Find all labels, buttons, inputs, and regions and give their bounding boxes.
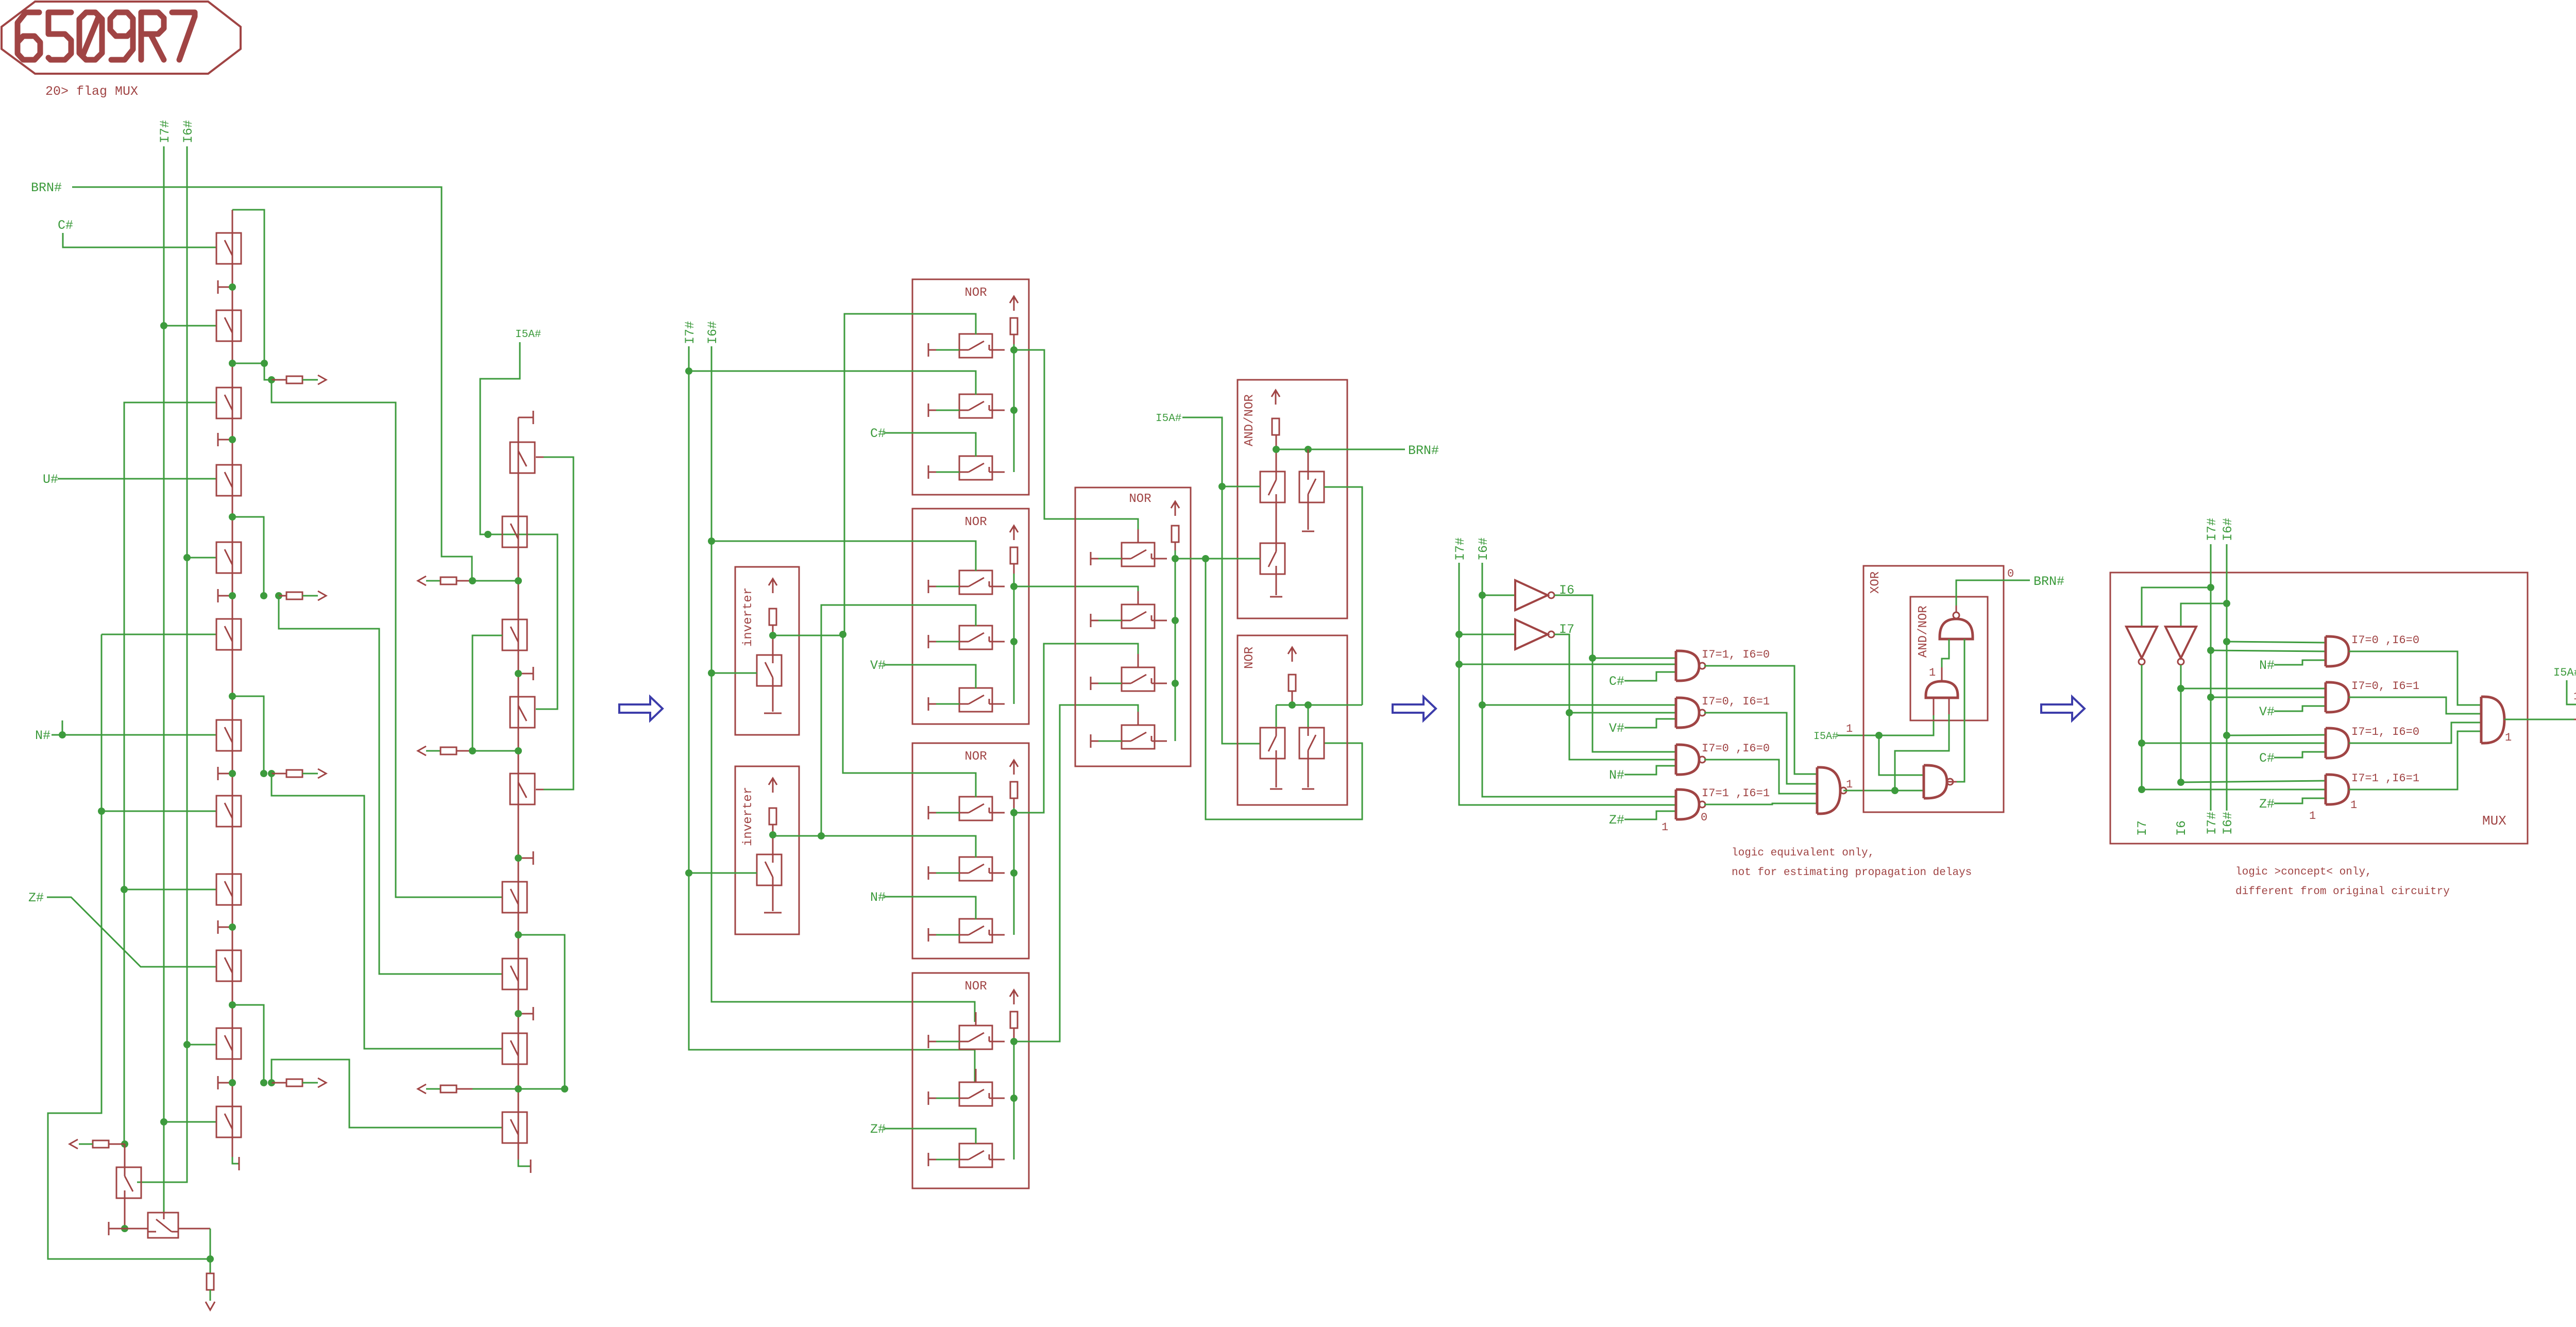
svg-text:NOR: NOR xyxy=(964,286,987,300)
transistor NOR5.Q1 xyxy=(1122,529,1167,566)
svg-text:C#: C# xyxy=(870,426,886,441)
arrow output y=1127 xyxy=(418,576,426,585)
block inverter2 outline xyxy=(735,766,799,934)
svg-text:I6: I6 xyxy=(2174,820,2189,836)
svg-text:N#: N# xyxy=(35,728,50,743)
wire resistor stub NOR1 xyxy=(1013,334,1015,344)
svg-text:1: 1 xyxy=(2309,810,2316,822)
wire out y=1457 xyxy=(426,750,440,752)
wire B1 drain xyxy=(124,1144,126,1167)
junction rail NOR1.Q1 xyxy=(1010,346,1018,354)
wire Q9 gate row xyxy=(124,889,217,891)
transistor QA3 xyxy=(216,388,241,418)
wire I7# to Q12 gate xyxy=(164,1121,216,1123)
wire I7# to A1 xyxy=(2211,650,2326,651)
transistor NOR2.Q3 xyxy=(959,675,1005,712)
substrate tap T (col A, y=557) xyxy=(218,280,232,294)
block NOR6 outline xyxy=(1238,635,1347,805)
junction tap y=1501 xyxy=(268,770,275,777)
wire xyxy=(1843,790,1924,792)
junction pair2 xyxy=(229,513,236,520)
resistor node-B1 xyxy=(93,1140,109,1148)
wire tap out y=737 xyxy=(302,379,318,381)
wire NOR6 rail xyxy=(1292,691,1293,705)
wire G5 out to G7 xyxy=(1895,714,1949,791)
svg-text:NOR: NOR xyxy=(1243,647,1257,669)
junction bypass colB xyxy=(515,931,522,938)
AND gate G4 xyxy=(1676,790,1705,819)
junction I7 to A3 xyxy=(2138,740,2145,747)
pull-up arrow inverter1 xyxy=(769,579,777,593)
wire out y=2113 xyxy=(426,1088,440,1090)
wire I7 to A3 xyxy=(2142,743,2326,744)
arrow panel2 to panel3 xyxy=(1393,697,1436,720)
wire xyxy=(124,402,216,1144)
junction xyxy=(515,854,522,862)
wire I6# to A1 xyxy=(2227,642,2326,643)
svg-text:MUX: MUX xyxy=(2482,813,2506,829)
resistor tap y=1156 xyxy=(286,592,302,599)
wire xyxy=(472,635,502,751)
svg-text:1: 1 xyxy=(2505,731,2512,744)
junction rail NOR3.Q2 xyxy=(1010,869,1018,877)
transistor inverter2.Q xyxy=(757,854,782,885)
AND gate G7 (middle) xyxy=(1926,681,1958,698)
svg-text:I7=1 ,I6=1: I7=1 ,I6=1 xyxy=(1702,787,1770,800)
wire rail inverter2 xyxy=(772,825,774,854)
substrate tap T (col A, y=1156) xyxy=(218,589,232,602)
junction I5A# at QB4 gate xyxy=(484,531,492,538)
transistor QB3 xyxy=(510,442,535,473)
resistor tap y=1501 xyxy=(286,770,302,777)
junction rail NOR5.Q2 xyxy=(1172,617,1179,624)
wire tap2 to QB9 gate xyxy=(279,596,502,974)
junction inv2 out xyxy=(818,832,825,839)
AND gate A1 xyxy=(2326,636,2349,666)
transistor QA2 xyxy=(216,310,241,341)
wire C# to A3 xyxy=(2274,752,2326,758)
pull-up arrow NOR5 xyxy=(1171,501,1179,516)
junction I5A# to Q1 xyxy=(1218,483,1226,490)
svg-text:logic >concept< only,: logic >concept< only, xyxy=(2235,866,2372,878)
gate tap T NOR2.Q1 xyxy=(928,580,936,593)
svg-text:I7#: I7# xyxy=(683,321,698,344)
wire xyxy=(1941,667,1943,681)
wire Q2 source xyxy=(1308,759,1309,787)
transistor NOR1.Q3 xyxy=(959,443,1005,480)
wire xyxy=(1704,803,1817,804)
substrate tap T (col A, y=2101) xyxy=(218,1076,232,1089)
junction I7# to Q2 xyxy=(160,322,167,329)
junction rail NOR1.Q2 xyxy=(1010,407,1018,414)
junction xyxy=(229,283,236,291)
junction xyxy=(260,1079,267,1086)
wire A5 out stub xyxy=(2574,719,2576,720)
pull-up resistor inverter2 xyxy=(769,808,776,825)
wire I7 to G2 xyxy=(1569,712,1676,714)
wire U# to Q4 gate xyxy=(58,478,216,480)
gate tap T NOR3.Q1 xyxy=(928,806,936,819)
svg-text:I7=0, I6=1: I7=0, I6=1 xyxy=(2351,680,2419,693)
junction out inverter2 xyxy=(769,831,776,838)
wire V# to A2 xyxy=(2274,706,2326,711)
wire I7# rail xyxy=(163,146,165,1213)
wire QB3 stub xyxy=(536,457,544,458)
junction NOR5 out branch xyxy=(1202,555,1209,562)
NAND gate A5 (output) xyxy=(2481,697,2504,743)
wire xyxy=(2349,723,2481,743)
wire resistor stub NOR4 xyxy=(1013,1028,1015,1038)
wire B2 to pulldown xyxy=(210,1229,211,1259)
wire to resistor xyxy=(210,1259,211,1273)
transistor QB9 xyxy=(502,959,527,989)
pull-up arrow NOR4 xyxy=(1010,990,1018,1004)
inverter U3 (I7) xyxy=(2126,627,2157,665)
wire Q3 source xyxy=(1276,574,1277,595)
transistor NOR5.Q3 xyxy=(1122,654,1167,691)
transistor NOR5.Q4 xyxy=(1122,712,1167,749)
junction rail NOR5.Q3 xyxy=(1172,680,1179,687)
wire tap out y=1501 xyxy=(302,773,318,775)
wire source lead NOR4.Q1 xyxy=(936,1041,959,1043)
wire node-B2 rail to Q8 gate xyxy=(101,811,217,812)
resistor tap y=1457 xyxy=(440,747,456,754)
inverter U2 (I7) xyxy=(1515,619,1554,649)
NOR gate G8 (top) xyxy=(1940,612,1973,639)
wire xyxy=(2349,697,2481,714)
wire source lead NOR3.Q1 xyxy=(936,812,959,814)
wire xyxy=(843,634,976,797)
svg-text:I5A#: I5A# xyxy=(2553,666,2576,679)
arrow output y=2101 xyxy=(318,1078,326,1087)
wire xyxy=(1013,1038,1015,1160)
wire source lead NOR4.Q2 xyxy=(936,1098,959,1099)
wire xyxy=(1554,634,1676,760)
block XOR outline xyxy=(1863,566,2004,812)
junction pulldown xyxy=(207,1255,214,1263)
svg-text:Z#: Z# xyxy=(2259,797,2275,812)
AND gate A2 xyxy=(2326,682,2349,712)
gate tap T NOR5.Q4 xyxy=(1091,734,1098,748)
wire xyxy=(472,580,518,582)
wire V# to NOR2.Q3 gate xyxy=(884,665,976,688)
svg-text:I7=0 ,I6=0: I7=0 ,I6=0 xyxy=(1702,742,1770,755)
wire Z# to A4 xyxy=(2274,798,2326,803)
inverter U1 (I6) xyxy=(1515,580,1554,610)
junction pair1 bypass xyxy=(261,360,268,367)
transistor NOR1.Q2 xyxy=(959,381,1005,418)
block NOR3 outline xyxy=(912,743,1029,959)
junction pair1 xyxy=(229,360,236,367)
junction I7# to inv xyxy=(1455,631,1463,638)
wire tap1 to QB8 gate xyxy=(272,380,502,897)
ground inverter1 xyxy=(764,713,782,714)
wire to Q2 top xyxy=(1308,705,1309,728)
transistor NOR5.Q2 xyxy=(1122,591,1167,628)
transistor NOR6.Q2 xyxy=(1299,728,1324,759)
junction tap y=1127 xyxy=(469,577,476,584)
wire I7 to A4 xyxy=(2142,789,2326,791)
junction xyxy=(515,1010,522,1017)
junction I7# to A2 xyxy=(2207,694,2214,701)
pull-up resistor inverter1 xyxy=(769,609,776,625)
transistor QA8 xyxy=(216,796,241,827)
wire xyxy=(1837,714,1934,735)
svg-text:C#: C# xyxy=(2259,751,2275,766)
transistor QA1 xyxy=(216,233,241,264)
junction I6 to A2 xyxy=(2177,685,2184,692)
junction rail NOR4.Q2 xyxy=(1010,1095,1018,1102)
svg-text:AND/NOR: AND/NOR xyxy=(1243,394,1257,446)
svg-text:1: 1 xyxy=(2573,690,2576,703)
wire xyxy=(2180,665,2182,782)
wire xyxy=(2181,603,2227,627)
junction chain y=1127 xyxy=(515,577,522,584)
transistor NOR3.Q3 xyxy=(959,905,1005,943)
inverter U4 (I6) xyxy=(2165,627,2196,665)
transistor QA5 xyxy=(216,542,241,573)
svg-text:1: 1 xyxy=(1662,821,1668,834)
wire xyxy=(2141,665,2143,790)
junction I6# to NOR2.Q1 xyxy=(708,537,715,545)
wire source lead NOR1.Q2 xyxy=(936,410,959,411)
wire I7# rail (panel4) xyxy=(2210,544,2212,811)
transistor QB11 xyxy=(502,1112,527,1143)
svg-text:I7=1, I6=0: I7=1, I6=0 xyxy=(2351,726,2419,738)
wire source lead NOR1.Q1 xyxy=(936,349,959,351)
logo text 6509R7 xyxy=(18,12,40,60)
junction I6# to inv xyxy=(1479,592,1486,599)
arrow output y=1501 xyxy=(318,769,326,778)
block AND/NOR outline xyxy=(1238,380,1347,618)
pull-up arrow NOR6 xyxy=(1288,647,1296,662)
wire to inverter I6 xyxy=(1482,595,1515,596)
pull-up arrow inverter2 xyxy=(769,778,777,793)
wire I5A# to e-gate xyxy=(2567,680,2576,704)
AND gate G6 xyxy=(1924,765,1953,798)
svg-text:I7: I7 xyxy=(2135,820,2150,836)
substrate tap T (col B top) xyxy=(518,411,533,424)
arrow output y=1457 xyxy=(418,746,426,755)
wire AND/NOR rail top xyxy=(1276,435,1277,472)
wire xyxy=(544,457,573,790)
wire I5A# to AND/NOR.Q1 gate xyxy=(1222,486,1260,488)
wire xyxy=(1175,558,1206,560)
wire xyxy=(1013,344,1015,472)
substrate tap T (col A, y=853) xyxy=(218,433,232,446)
transistor NOR1.Q1 xyxy=(959,321,1005,358)
wire xyxy=(2504,719,2574,720)
wire N# to Q7 gate xyxy=(52,734,217,736)
wire xyxy=(1933,698,1935,715)
wire xyxy=(1206,558,1260,560)
ground NOR6.Q1 xyxy=(1270,788,1282,790)
transistor AND/NOR.Q2 xyxy=(1299,472,1324,502)
svg-text:Z#: Z# xyxy=(28,891,44,905)
wire xyxy=(1014,644,1138,813)
wire I6# to A3 xyxy=(2227,735,2326,735)
wire source lead NOR5.Q1 xyxy=(1098,558,1122,560)
block NOR4 outline xyxy=(912,973,1029,1188)
pull-up arrow AND/NOR xyxy=(1272,390,1280,405)
wire xyxy=(772,686,774,712)
transistor NOR3.Q1 xyxy=(959,783,1005,820)
wire N# to A1 xyxy=(2274,660,2326,665)
svg-text:inverter: inverter xyxy=(741,787,755,846)
wire source lead NOR3.Q3 xyxy=(936,934,959,936)
junction xyxy=(229,592,236,599)
transistor QB2 (horizontal) xyxy=(148,1213,178,1238)
arrow panel1 to panel2 xyxy=(619,697,663,720)
wire xyxy=(1175,550,1176,741)
wire V# to G2 xyxy=(1624,719,1676,728)
pull-up arrow NOR3 xyxy=(1010,760,1018,775)
substrate tap T (col B, y=1967) xyxy=(518,1007,533,1020)
wire bypass pair2 xyxy=(232,517,264,596)
junction rail NOR2.Q1 xyxy=(1010,583,1018,590)
gate tap T NOR2.Q3 xyxy=(928,697,936,711)
wire node-B1 out xyxy=(79,1144,93,1145)
pull-up arrow NOR2 xyxy=(1010,526,1018,540)
substrate tap T (col A, y=1501) xyxy=(218,767,232,780)
transistor QB7 xyxy=(510,774,535,804)
junction I7# to inv xyxy=(2207,584,2214,591)
wire to inverter I7 xyxy=(1459,634,1515,635)
AND gate G5 (4-input) xyxy=(1817,767,1846,814)
wire N# to NOR3.Q3 gate xyxy=(884,897,976,919)
wire source lead NOR4.Q3 xyxy=(936,1159,959,1161)
svg-text:I7=1, I6=0: I7=1, I6=0 xyxy=(1702,648,1770,661)
wire I7# to G1 xyxy=(1459,664,1676,665)
transistor QB1 xyxy=(116,1167,141,1198)
wire N# stub xyxy=(62,720,63,735)
svg-text:I7#: I7# xyxy=(2205,518,2219,541)
wire bypass pair1 xyxy=(232,210,272,380)
wire xyxy=(1014,586,1138,604)
wire inv2 output xyxy=(773,835,821,837)
svg-text:I7=0 ,I6=0: I7=0 ,I6=0 xyxy=(2351,634,2419,647)
substrate tap T (col B, y=1665) xyxy=(518,851,533,865)
svg-text:Z#: Z# xyxy=(870,1122,886,1137)
wire rail inverter1 xyxy=(772,625,774,655)
junction BRN# out xyxy=(1273,446,1280,453)
substrate tap T (col A bottom) xyxy=(238,1157,239,1170)
pull-up resistor NOR3 xyxy=(1010,782,1018,798)
wire bypass pair4 xyxy=(232,1005,264,1083)
resistor pulldown xyxy=(207,1273,214,1290)
svg-text:1: 1 xyxy=(1846,723,1853,735)
wire to arrow xyxy=(210,1290,211,1301)
wire resistor stub NOR2 xyxy=(1013,564,1015,574)
svg-text:1: 1 xyxy=(2350,799,2357,812)
wire source lead NOR2.Q1 xyxy=(936,586,959,587)
wire xyxy=(772,885,774,911)
wire xyxy=(821,836,976,858)
junction I7# to NOR1.Q2 xyxy=(685,367,692,375)
wire I6# rail to Q-B1 gate xyxy=(137,146,187,1182)
junction I6# to inv1 xyxy=(708,669,715,677)
pull-up arrow NOR1 xyxy=(1010,296,1018,311)
wire xyxy=(472,1088,518,1090)
AND gate A4 xyxy=(2326,775,2349,804)
junction node-B1 to Q9 gate xyxy=(121,886,128,893)
wire to Q1 top xyxy=(1276,705,1277,728)
resistor tap y=2113 xyxy=(440,1085,456,1093)
junction I6 to G1 xyxy=(1589,654,1596,662)
wire xyxy=(518,1160,530,1166)
arrow output y=737 xyxy=(318,375,326,384)
wire xyxy=(518,417,519,1160)
svg-text:NOR: NOR xyxy=(1129,492,1151,506)
svg-text:I6#: I6# xyxy=(181,120,196,143)
junction tap y=2101 xyxy=(268,1079,275,1086)
block NOR2 outline xyxy=(912,509,1029,724)
wire xyxy=(2142,587,2211,627)
gate tap T NOR4.Q2 xyxy=(928,1091,936,1105)
svg-text:I5A#: I5A# xyxy=(1156,413,1181,425)
resistor tap y=1127 xyxy=(440,577,456,584)
wire C# to Q1 gate xyxy=(63,233,216,247)
wire xyxy=(2349,731,2481,790)
svg-text:I6#: I6# xyxy=(2221,812,2235,835)
wire NOR6 out row xyxy=(1276,704,1362,706)
wire Z# to G4 xyxy=(1624,811,1676,819)
gate tap T NOR3.Q2 xyxy=(928,866,936,880)
wire B1 source xyxy=(124,1199,126,1229)
junction I6# to G2 xyxy=(1479,701,1486,709)
svg-text:I6#: I6# xyxy=(705,321,720,344)
svg-text:BRN#: BRN# xyxy=(1408,443,1439,458)
svg-text:N#: N# xyxy=(1609,768,1624,783)
wire xyxy=(480,342,557,709)
wire Q1-Q3 chain xyxy=(1276,502,1277,543)
svg-text:I7#: I7# xyxy=(158,120,173,143)
wire xyxy=(1013,808,1015,935)
wire source lead NOR2.Q2 xyxy=(936,641,959,643)
wire to Q2 top xyxy=(1308,449,1309,472)
wire xyxy=(1276,449,1405,450)
wire I7# to A2 xyxy=(2211,697,2326,698)
gate tap T NOR5.Q2 xyxy=(1091,614,1098,627)
transistor QA6 xyxy=(216,619,241,650)
svg-text:logic equivalent only,: logic equivalent only, xyxy=(1732,847,1874,859)
wire I6# to Q11 gate xyxy=(187,1044,216,1046)
svg-text:0: 0 xyxy=(1701,811,1707,824)
wire B2 output xyxy=(178,1228,210,1230)
transistor NOR4.Q3 xyxy=(959,1130,1005,1167)
wire xyxy=(1704,760,1817,794)
svg-text:0: 0 xyxy=(2007,567,2014,580)
junction I7# to G1 xyxy=(1455,661,1463,668)
junction I7# to inv2 xyxy=(685,869,692,877)
transistor AND/NOR.Q3 xyxy=(1260,543,1285,574)
AND gate G3 xyxy=(1676,745,1705,775)
transistor QB4 xyxy=(502,516,527,547)
arrow output y=2113 xyxy=(418,1084,426,1094)
block AND/NOR (XOR) outline xyxy=(1910,597,1988,720)
pull-up resistor NOR5 xyxy=(1172,526,1179,542)
wire xyxy=(1206,559,1362,819)
junction BRN# at Q2 xyxy=(1304,446,1312,453)
wire xyxy=(689,346,975,1083)
junction I6# to Q5 xyxy=(183,554,191,561)
svg-text:Z#: Z# xyxy=(1609,813,1624,828)
wire xyxy=(232,210,233,1157)
substrate tap T (col B, y=1307) xyxy=(518,667,533,680)
wire xyxy=(137,1182,138,1183)
wire xyxy=(821,605,976,836)
wire tap y=1156 xyxy=(279,595,286,597)
